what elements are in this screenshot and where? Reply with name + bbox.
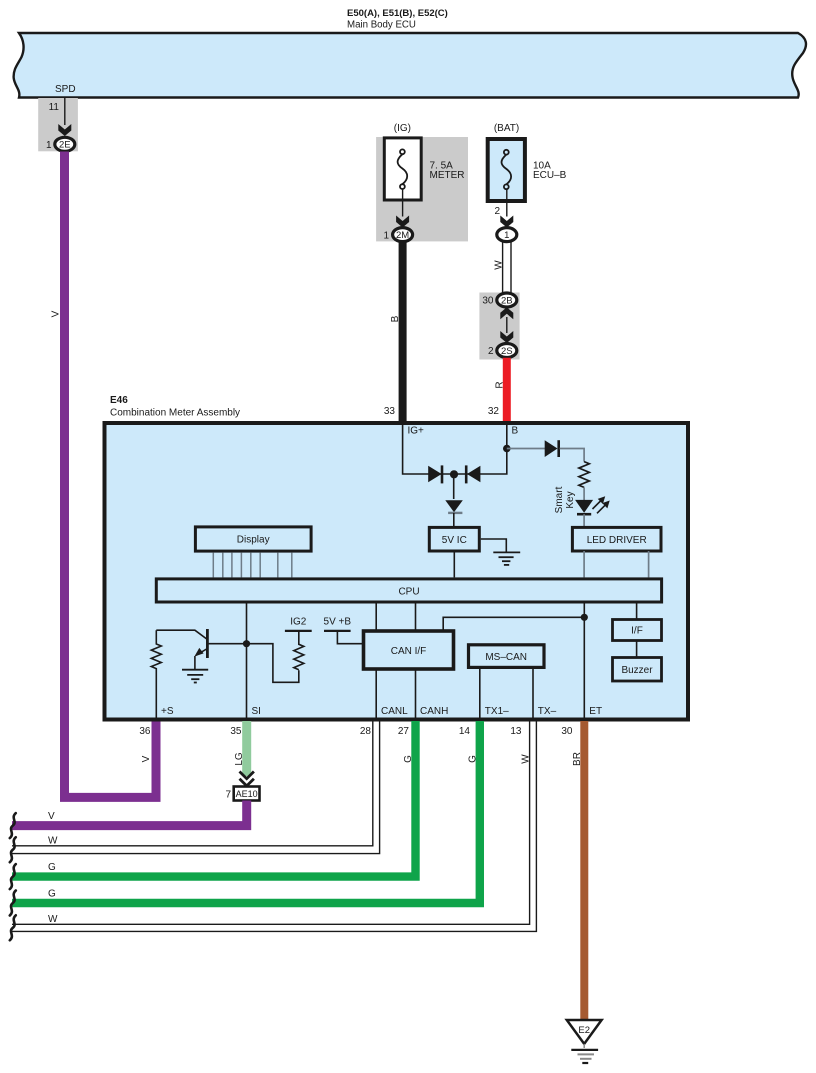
ground E2 earth symbol [571,1044,598,1063]
svg-text:CANH: CANH [420,706,448,717]
svg-text:ECU–B: ECU–B [533,170,567,181]
break squiggle W1 [10,837,16,862]
svg-text:5V +B: 5V +B [324,617,352,628]
svg-text:W: W [494,260,505,270]
double arrow into AE10 [240,772,254,786]
connector 1 [497,228,517,242]
svg-text:2: 2 [488,346,494,357]
wires Display to CPU (gray) [213,553,291,578]
arrow into 2M [396,216,409,228]
svg-text:CANL: CANL [381,706,408,717]
svg-text:1: 1 [46,140,52,151]
junction node on B line [503,445,511,453]
wire D3 to 5V IC [453,513,455,526]
gray connector panel SPD [38,98,78,151]
junction node diode row [450,470,458,478]
svg-text:G: G [48,862,56,873]
svg-text:Display: Display [237,535,270,546]
svg-text:2S: 2S [501,346,513,357]
svg-text:28: 28 [360,726,372,737]
connector 2B [497,293,517,307]
svg-text:Key: Key [565,491,576,508]
LED smart key [575,500,593,514]
wire fuse IG to 2M [402,189,404,217]
svg-text:B: B [390,315,401,322]
svg-text:G: G [467,755,478,763]
svg-text:CPU: CPU [398,586,419,597]
svg-text:30: 30 [482,296,494,307]
svg-text:IG2: IG2 [290,617,307,628]
wire BR (brown) ET pin 30 to ground E2 [580,721,588,1021]
wire between arrows [506,317,508,333]
resistor R1 on +S [151,630,161,719]
gray panel IG fuse [376,137,468,241]
fuse symbol BAT [502,150,512,189]
wire IG2 resistor to SI junction [247,644,299,683]
svg-text:TX–: TX– [538,706,557,717]
net stub 5V +B [324,630,351,632]
svg-text:SPD: SPD [55,84,76,95]
svg-text:V: V [141,755,152,762]
svg-text:W: W [520,754,531,764]
svg-text:AE10: AE10 [236,789,258,799]
svg-text:30: 30 [561,726,573,737]
resistor smart key [579,462,589,488]
ground E2 triangle [567,1020,602,1044]
5V IC box [429,527,479,551]
wires LED DRIVER to CPU (gray) [583,551,585,577]
svg-text:32: 32 [488,406,500,417]
I/F box [613,620,662,641]
CAN I/F box [364,631,454,669]
wire 5V IC to CPU [453,551,455,577]
wire I/F to Buzzer [636,641,638,657]
svg-text:1: 1 [504,230,509,241]
svg-text:2: 2 [494,206,500,217]
wire CPU to I/F [636,602,638,619]
wire 5V +B to CAN I/F [337,631,362,644]
Combination Meter Assembly box E46 [105,423,689,720]
svg-text:2B: 2B [501,295,513,306]
diode D2 (points left) [466,465,480,483]
MS-CAN box [469,645,545,668]
wire G (green) CANH pin 27 to left [12,721,416,877]
svg-text:14: 14 [459,726,471,737]
fuse symbol IG [398,149,408,189]
Main Body ECU banner [14,33,806,98]
wire G (green) TX1- pin 14 to left [12,721,480,903]
wire junction to diode D3 [453,474,455,499]
diode D3 (points down) [445,500,463,513]
LED emission arrows [593,498,609,514]
svg-text:2M: 2M [396,230,409,241]
connector 2E [55,137,75,151]
svg-text:7: 7 [225,790,231,801]
ground at 5V IC [481,539,520,565]
svg-text:I/F: I/F [631,626,643,637]
CPU bar [156,579,661,602]
svg-text:METER: METER [430,170,465,181]
wire R (red) 2S to pin 32 [503,358,511,421]
svg-text:11: 11 [49,102,60,113]
gray panel 2B/2S [479,293,519,360]
svg-text:1: 1 [383,230,389,241]
Display box [195,527,311,551]
arrow into 2E [58,124,71,136]
break squiggle W2 [10,915,16,940]
connector 2S [497,344,517,358]
svg-text:G: G [403,755,414,763]
svg-text:Smart: Smart [554,486,565,513]
svg-text:LG: LG [234,752,245,766]
svg-text:(IG): (IG) [394,123,411,134]
wire W (white) hollow TX- pin 13 to left [12,721,536,931]
svg-text:V: V [48,811,55,822]
break squiggle G2 [10,891,16,916]
svg-text:Combination Meter Assembly: Combination Meter Assembly [110,408,240,419]
wire fuse BAT down [506,189,508,216]
svg-text:B: B [512,426,519,437]
break squiggle V wire [10,813,16,838]
fuse 10A ECU-B box [488,139,525,201]
arrow into 2S [500,331,513,343]
wire SPD to connector 2E [64,98,66,126]
arrow into connector 1 [500,216,513,228]
connector AE10 [234,787,260,801]
diode D4 (points right) [545,440,559,457]
connector 2M [393,228,413,242]
svg-text:(BAT): (BAT) [494,123,519,134]
svg-text:5V IC: 5V IC [442,535,467,546]
wire LG from SI pin 35 [242,721,251,776]
wire LED to LED DRIVER (gray) [583,514,585,526]
wire ET junction to CAN I/F [443,617,584,630]
svg-text:TX1–: TX1– [485,706,509,717]
svg-text:35: 35 [230,726,242,737]
svg-text:E50(A), E51(B), E52(C): E50(A), E51(B), E52(C) [347,8,448,19]
fuse 7.5A METER box [384,138,421,200]
LED DRIVER box [572,527,661,551]
svg-text:33: 33 [384,406,396,417]
wire resistor to LED (gray) [583,487,585,500]
wire V (violet) AE10 to left [12,801,247,826]
wire B junction to diode D4 (gray) [507,448,545,450]
svg-text:+S: +S [161,706,174,717]
svg-text:W: W [48,914,58,925]
net stub IG2 [285,630,312,632]
title E50/E51/E52 Main Body ECU [347,8,448,31]
break squiggle G1 [10,864,16,889]
junction node SI [243,640,250,647]
wire W (white) hollow connector 1 to 2B [503,242,511,293]
svg-text:W: W [48,836,58,847]
svg-text:G: G [48,889,56,900]
wire B (black) 2M to pin 33 [399,242,407,421]
wire W (white) hollow CANL pin 28 to left [12,721,380,854]
svg-text:Buzzer: Buzzer [621,665,653,676]
arrow up out of 2B [500,307,513,319]
svg-text:CAN I/F: CAN I/F [391,646,427,657]
svg-text:E46: E46 [110,395,128,406]
svg-text:BR: BR [572,752,583,766]
wires CPU to CAN I/F (CANL CANH) [375,602,377,630]
wire V (violet) SPD from 2E down, across, up to +S pin 36 [65,152,157,798]
wires CAN I/F to pins CANL CANH [375,670,377,720]
diode D1 (points right) [428,465,442,483]
wire IG+ and B to diode row [403,421,507,474]
ground at transistor emitter [182,670,208,683]
svg-text:R: R [494,381,505,388]
svg-text:13: 13 [510,726,522,737]
wire ET from CPU to pin 30 [583,602,585,720]
svg-text:E2: E2 [578,1025,590,1036]
Buzzer box [613,658,662,682]
resistor R2 IG2 [294,631,304,670]
wire SI from CPU to pin 35 [246,602,248,720]
svg-text:36: 36 [139,726,151,737]
transistor Q1 [156,629,207,669]
svg-text:LED DRIVER: LED DRIVER [587,535,647,546]
junction node ET [581,614,588,621]
wire base to transistor [207,643,246,645]
svg-text:MS–CAN: MS–CAN [485,652,527,663]
svg-text:Main Body ECU: Main Body ECU [347,20,416,31]
svg-text:V: V [51,310,62,317]
svg-text:ET: ET [589,706,602,717]
svg-text:2E: 2E [59,140,71,151]
svg-text:SI: SI [252,706,261,717]
svg-text:27: 27 [398,726,410,737]
wire D4 to resistor (gray) [560,449,584,462]
svg-text:IG+: IG+ [408,426,425,437]
wires MS-CAN to pins TX1- TX- [479,667,481,720]
